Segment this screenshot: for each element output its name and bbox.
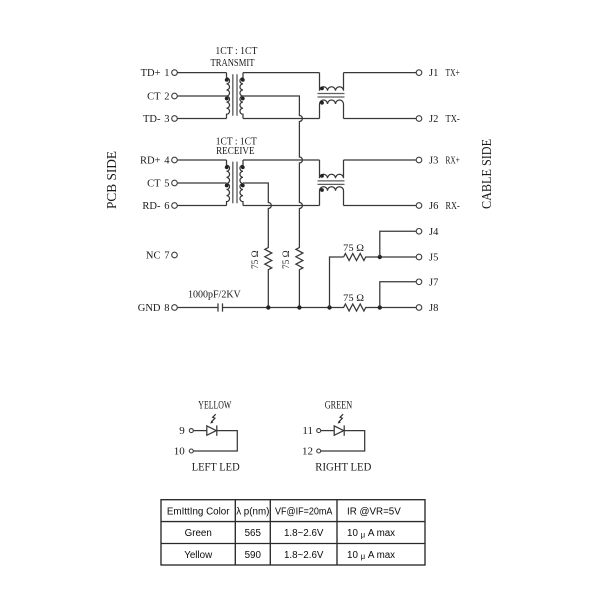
- pin 1 TD+: [172, 70, 178, 76]
- svg-text:5: 5: [164, 179, 169, 190]
- wire TD- pin3 to T1: [177, 118, 226, 120]
- wire LED D2 cathode loop to pin12: [321, 431, 365, 451]
- svg-text:7: 7: [164, 251, 169, 262]
- svg-text:1: 1: [164, 68, 169, 79]
- wire T2 secondary top to choke L2: [243, 159, 320, 161]
- junction node R1-gnd: [266, 305, 270, 309]
- svg-text:Green: Green: [185, 528, 212, 539]
- svg-text:1.8~2.6V: 1.8~2.6V: [284, 528, 324, 539]
- svg-text:75 Ω: 75 Ω: [282, 250, 292, 269]
- junction node R2-gnd: [297, 305, 301, 309]
- svg-text:RD+: RD+: [140, 156, 161, 167]
- LED D2 pin 11: [317, 429, 321, 433]
- LED D2 emission arrow: [339, 414, 343, 422]
- svg-text:J8: J8: [429, 303, 438, 314]
- wire RD+ pin4 to T2: [177, 159, 226, 161]
- svg-text:1CT : 1CT: 1CT : 1CT: [215, 46, 257, 57]
- transformer T1 secondary dot top: [241, 78, 245, 82]
- choke L1 bottom winding: [320, 100, 344, 119]
- resistor R3 75ohm zigzag: [344, 254, 417, 261]
- svg-text:CT: CT: [147, 179, 161, 190]
- svg-text:1000pF/2KV: 1000pF/2KV: [188, 289, 242, 300]
- transformer T2 primary dot bottom: [225, 184, 229, 188]
- transformer T1 primary dot bottom: [225, 97, 229, 101]
- svg-text:J2: J2: [429, 114, 438, 125]
- svg-text:GND: GND: [138, 303, 161, 314]
- wire T1 secondary bottom to choke L1: [243, 118, 320, 120]
- svg-text:9: 9: [179, 425, 185, 437]
- pin 5 CT: [172, 180, 178, 186]
- svg-text:J7: J7: [429, 277, 438, 288]
- transformer T1 secondary winding: [240, 73, 243, 119]
- wire choke L1 to J2: [344, 118, 417, 120]
- LED D2 pin 12: [317, 449, 321, 453]
- choke L2 top dot: [320, 174, 324, 178]
- svg-text:590: 590: [245, 550, 262, 561]
- svg-text:Yellow: Yellow: [184, 550, 213, 561]
- terminal J1: [416, 70, 422, 76]
- pin 3 TD-: [172, 116, 178, 122]
- junction node R4-J8: [378, 305, 382, 309]
- pin 8 GND: [172, 305, 178, 311]
- svg-text:LEFT LED: LEFT LED: [192, 462, 240, 474]
- svg-text:11: 11: [302, 425, 313, 437]
- transformer T2 secondary dot top: [241, 165, 245, 169]
- wire CT pin2 to T1: [177, 95, 226, 97]
- svg-text:J4: J4: [429, 227, 439, 238]
- svg-text:10 μ A max: 10 μ A max: [347, 528, 395, 539]
- capacitor C1 plates: [218, 303, 223, 311]
- svg-text:TRANSMIT: TRANSMIT: [211, 58, 255, 69]
- wire pin9 to LED D1: [193, 430, 207, 432]
- transformer T1 primary winding: [227, 73, 230, 119]
- LED D1 cathode bar: [216, 425, 218, 435]
- svg-text:TD-: TD-: [143, 114, 161, 125]
- wire junction to J7: [380, 282, 416, 308]
- wire CT pin5 to T2: [177, 182, 226, 184]
- wire LED D1 cathode loop to pin10: [193, 431, 237, 451]
- choke L2 top winding: [320, 160, 344, 178]
- terminal J5: [416, 254, 422, 260]
- junction node R3-J5: [378, 255, 382, 259]
- choke L1 top winding: [320, 73, 344, 91]
- wire T2 secondary CT down with hop: [243, 183, 272, 308]
- svg-text:RECEIVE: RECEIVE: [216, 146, 255, 157]
- LED D2 cathode bar: [343, 425, 345, 435]
- transformer T2 primary dot top: [225, 165, 229, 169]
- terminal J7: [416, 279, 422, 285]
- svg-text:GREEN: GREEN: [325, 400, 353, 412]
- junction node R3-gnd: [327, 305, 331, 309]
- svg-text:VF@IF=20mA: VF@IF=20mA: [275, 506, 333, 517]
- svg-text:NC: NC: [146, 251, 161, 262]
- choke L1 core: [318, 94, 345, 98]
- svg-text:λ p(nm): λ p(nm): [236, 506, 269, 517]
- terminal J2: [416, 116, 422, 122]
- wire choke L2 to J3: [344, 159, 417, 161]
- svg-text:75 Ω: 75 Ω: [343, 294, 364, 304]
- svg-text:565: 565: [245, 528, 262, 539]
- svg-text:RIGHT LED: RIGHT LED: [315, 462, 371, 474]
- svg-text:10: 10: [174, 446, 186, 458]
- transformer T1 secondary dot bottom: [241, 97, 245, 101]
- svg-text:10 μ A max: 10 μ A max: [347, 550, 395, 561]
- wire T2 secondary bottom to choke L2: [243, 205, 320, 207]
- svg-text:6: 6: [164, 201, 169, 212]
- svg-text:J1: J1: [429, 68, 438, 79]
- pin 7 NC: [172, 252, 178, 258]
- pin 4 RD+: [172, 157, 178, 163]
- transformer T2 primary winding: [227, 160, 230, 206]
- choke L1 top dot: [320, 87, 324, 91]
- wire choke L1 to J1: [344, 72, 417, 74]
- LED D1 emission arrow: [212, 414, 216, 422]
- svg-text:CABLE SIDE: CABLE SIDE: [480, 139, 495, 209]
- wire ground bus with resistor R4: [223, 304, 417, 311]
- choke L1 bottom dot: [320, 101, 324, 105]
- LED D1 pin 10: [189, 449, 193, 453]
- wire R3 left leg to ground bus: [330, 257, 344, 308]
- svg-text:TD+: TD+: [141, 68, 161, 79]
- svg-text:8: 8: [164, 303, 169, 314]
- transformer T1 primary dot top: [225, 78, 229, 82]
- LED D1 triangle: [207, 426, 217, 435]
- terminal J3: [416, 157, 422, 163]
- svg-text:CT: CT: [147, 92, 161, 103]
- choke L2 core: [318, 181, 345, 185]
- transformer T2 core: [233, 162, 237, 204]
- wire T1 secondary top to choke L1: [243, 72, 320, 74]
- svg-text:TX-: TX-: [446, 114, 461, 125]
- transformer T2 secondary winding: [240, 160, 243, 206]
- wire T1 secondary CT down with hops: [243, 96, 303, 308]
- transformer T2 secondary dot bottom: [241, 184, 245, 188]
- transformer T1 core: [233, 74, 237, 116]
- wire RD- pin6 to T2: [177, 205, 226, 207]
- svg-text:YELLOW: YELLOW: [198, 400, 231, 412]
- svg-text:1.8~2.6V: 1.8~2.6V: [284, 550, 324, 561]
- svg-text:EmIttIng Color: EmIttIng Color: [167, 506, 230, 517]
- svg-text:75 Ω: 75 Ω: [343, 244, 364, 254]
- wire choke L2 to J6: [344, 205, 417, 207]
- svg-text:IR @VR=5V: IR @VR=5V: [347, 506, 401, 517]
- choke L2 bottom dot: [320, 188, 324, 192]
- terminal J8: [416, 305, 422, 311]
- choke L2 bottom winding: [320, 187, 344, 206]
- wire pin11 to LED D2: [321, 430, 335, 432]
- svg-text:75 Ω: 75 Ω: [251, 250, 261, 269]
- svg-text:PCB SIDE: PCB SIDE: [105, 151, 120, 209]
- LED D2 triangle: [334, 426, 344, 435]
- svg-text:3: 3: [164, 114, 169, 125]
- svg-text:RD-: RD-: [142, 201, 161, 212]
- svg-text:J5: J5: [429, 253, 438, 264]
- svg-text:TX+: TX+: [446, 68, 460, 79]
- pin 6 RD-: [172, 203, 178, 209]
- LED D1 pin 9: [189, 429, 193, 433]
- svg-text:RX-: RX-: [446, 201, 461, 212]
- svg-text:RX+: RX+: [446, 156, 460, 167]
- svg-text:J3: J3: [429, 156, 438, 167]
- terminal J6: [416, 203, 422, 209]
- wire junction to J4: [380, 231, 416, 257]
- svg-text:J6: J6: [429, 201, 438, 212]
- pin 2 CT: [172, 93, 178, 99]
- svg-text:4: 4: [164, 156, 170, 167]
- svg-text:12: 12: [302, 446, 313, 458]
- table grid: [161, 500, 425, 565]
- wire GND pin8 to capacitor: [177, 307, 218, 309]
- svg-text:2: 2: [164, 92, 169, 103]
- terminal J4: [416, 229, 422, 235]
- wire TD+ pin1 to T1: [177, 72, 226, 74]
